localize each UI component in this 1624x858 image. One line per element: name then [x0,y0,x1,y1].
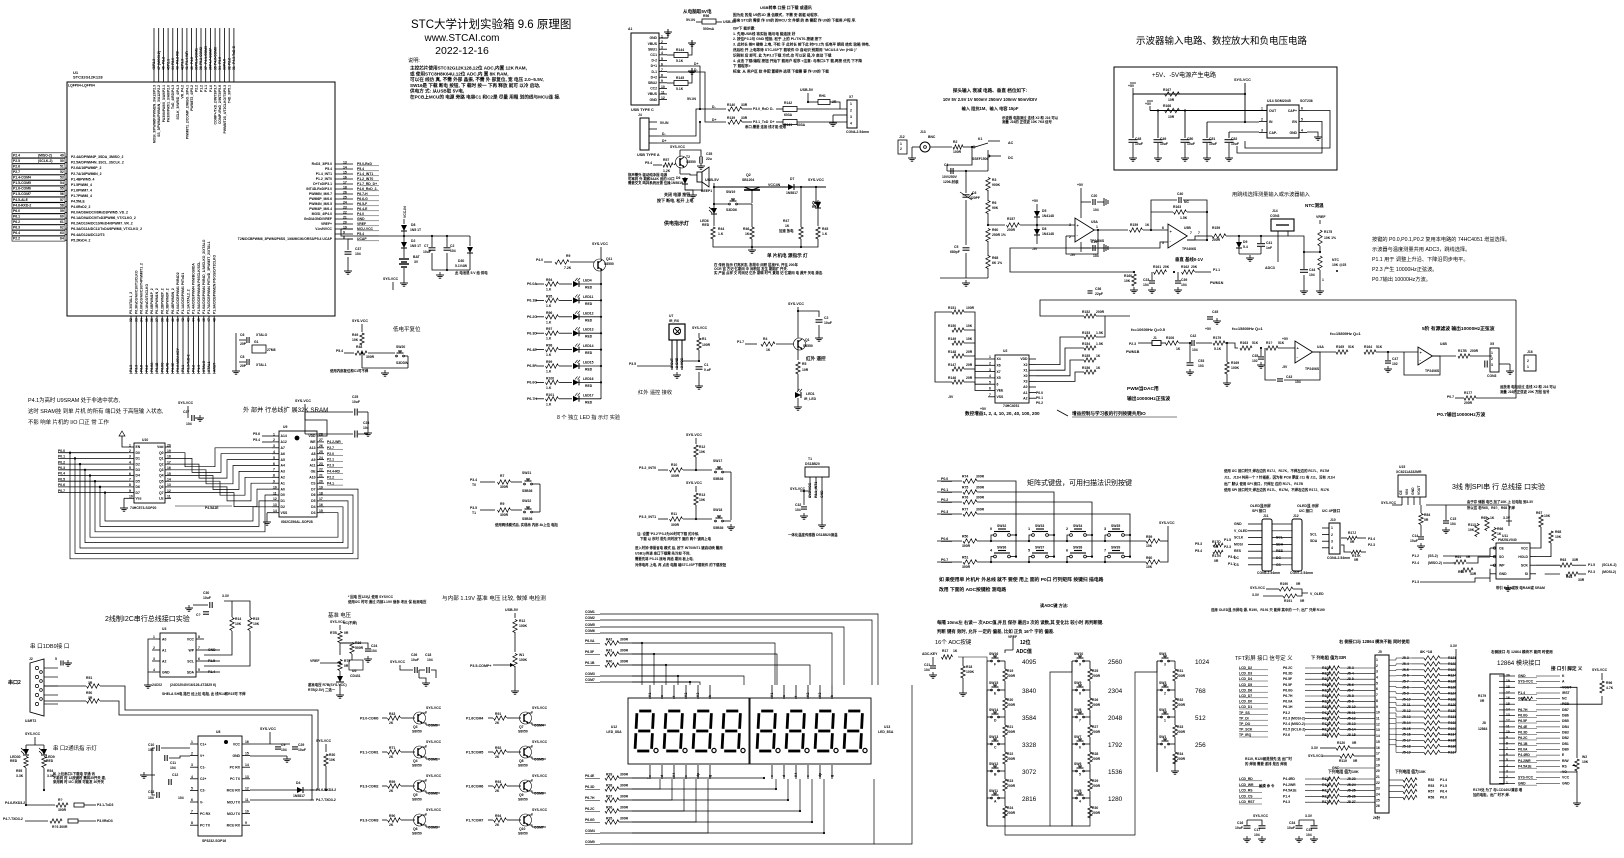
svg-text:3: 3 [1491,363,1493,367]
svg-text:100K: 100K [519,624,528,628]
svg-text:J11、J11H 共用一个 7 针插座，因为有 PCB 厚度: J11、J11H 共用一个 7 针插座，因为有 PCB 厚度 J11 有 J11… [1224,474,1335,479]
svg-text:MCU TX: MCU TX [227,812,241,816]
svg-text:SW36: SW36 [997,546,1006,550]
svg-text:VBUS: VBUS [648,92,658,96]
svg-text:5: 5 [1028,549,1030,553]
svg-text:3: 3 [1261,129,1263,133]
svg-text:P2.2: P2.2 [227,58,231,65]
svg-text:34: 34 [140,318,144,322]
svg-text:13: 13 [1376,728,1380,732]
svg-text:1280: 1280 [1108,796,1123,803]
svg-text:R23: R23 [1007,779,1013,783]
svg-text:104: 104 [186,422,192,426]
svg-text:P4.5A1E: P4.5A1E [205,506,219,510]
svg-text:K3: K3 [696,693,700,697]
svg-text:34: 34 [218,66,222,70]
svg-text:33: 33 [134,318,138,322]
svg-text:GND: GND [357,217,365,221]
svg-text:不影 响单 片机的 I/O 口正 常 工作: 不影 响单 片机的 I/O 口正 常 工作 [28,418,109,426]
svg-text:R98: R98 [546,344,552,348]
svg-text:P4.1-COM3: P4.1-COM3 [204,46,208,64]
svg-text:R150: R150 [948,324,956,328]
svg-text:CE: CE [1499,546,1504,550]
svg-text:R106: R106 [1166,336,1174,340]
svg-text:U2: U2 [1003,349,1007,353]
svg-text:P2.2: P2.2 [162,57,166,64]
svg-text:2K: 2K [389,823,394,827]
svg-text:CD431: CD431 [350,674,361,678]
svg-text:右侧接口 与 12864 模块不 能同 时使用: 右侧接口 与 12864 模块不 能同 时使用 [1490,649,1553,654]
svg-text:SW11: SW11 [989,789,998,793]
svg-text:300R: 300R [976,508,985,512]
svg-text:Q6: Q6 [159,485,164,489]
svg-text:P1.7_RD_D+: P1.7_RD_D+ [357,182,377,186]
svg-text:A5: A5 [281,458,285,462]
svg-text:R9: R9 [566,254,570,258]
svg-text:26: 26 [343,190,347,194]
svg-text:D+1: D+1 [651,64,657,68]
svg-text:R75: R75 [962,486,968,490]
svg-text:R24: R24 [1007,806,1013,810]
svg-text:-5V: -5V [1070,253,1076,257]
svg-text:VDD: VDD [308,434,316,438]
svg-text:D4: D4 [296,781,300,785]
svg-text:运放泄 电阻设过 连线 X2 和 J16 可以: 运放泄 电阻设过 连线 X2 和 J16 可以 [1500,384,1557,389]
svg-text:3线 制SPI串 行 总线接 口实验: 3线 制SPI串 行 总线接 口实验 [1452,482,1545,491]
svg-text:J1: J1 [1153,336,1157,340]
svg-text:3: 3 [1376,670,1378,674]
svg-text:R46: R46 [743,227,749,231]
svg-text:3: 3 [1506,770,1508,774]
svg-text:0R: 0R [1350,540,1355,544]
svg-text:5: 5 [55,657,57,661]
svg-text:1: 1 [900,142,902,146]
svg-text:SYS-VCC: SYS-VCC [1592,668,1608,672]
svg-text:C35: C35 [1252,354,1258,358]
svg-text:P0.1: P0.1 [941,488,948,492]
svg-text:RED: RED [585,318,593,322]
svg-text:P4.3-TxD-B: P4.3-TxD-B [232,45,236,64]
svg-text:T1: T1 [472,511,476,515]
svg-text:P0.5: P0.5 [58,477,65,481]
svg-text:104: 104 [924,668,930,672]
svg-text:UCAP: UCAP [357,237,367,241]
svg-text:D5: D5 [1042,209,1046,213]
svg-text:串 口2通讯指 示灯: 串 口2通讯指 示灯 [53,744,97,752]
svg-text:P6.0: P6.0 [1440,795,1447,799]
svg-text:GND: GND [820,490,824,498]
svg-text:16: 16 [1506,696,1510,700]
svg-text:SDA: SDA [187,670,195,674]
svg-text:P6.0A: P6.0A [1518,748,1528,752]
svg-text:识别到 后 即可, 此 为P3.2下载 方式,也 可以说 是: 识别到 后 即可, 此 为P3.2下载 方式,也 可以说 是,冷 启动 下载 [733,52,832,57]
svg-text:420PF: 420PF [970,196,980,200]
svg-text:52: 52 [60,170,64,174]
svg-text:5: 5 [191,786,193,790]
svg-text:MOSI_3/PWM6P/PWM2N_3/A13/P2.3: MOSI_3/PWM6P/PWM2N_3/A13/P2.3 [152,85,156,143]
svg-text:1N5 1T: 1N5 1T [410,244,422,248]
svg-text:这时 SRAM挂 到单 片机 的所有 端口处 于高阻输 入状: 这时 SRAM挂 到单 片机 的所有 端口处 于高阻输 入状态, [28,407,164,415]
svg-text:C39: C39 [1181,278,1187,282]
svg-text:使用两线模式后, 实现串 内部 4k上位 电阻: 使用两线模式后, 实现串 内部 4k上位 电阻 [494,522,558,527]
svg-text:R39: R39 [606,773,612,777]
svg-text:SYS-VCC: SYS-VCC [1308,754,1324,758]
svg-text:20: 20 [343,220,347,224]
svg-text:PWM8/T2S_4/T2CLKO/T3/P5.3: PWM8/T2S_4/T2CLKO/T3/P5.3 [223,85,227,134]
svg-text:P3.6: P3.6 [218,57,222,64]
svg-text:P6.3D: P6.3D [585,785,595,789]
svg-text:C49: C49 [1160,137,1166,141]
svg-text:Q3: Q3 [413,725,418,729]
svg-text:UART2: UART2 [25,719,36,723]
svg-text:P2.6A/16PWM6P_2: P2.6A/16PWM6P_2 [71,166,101,170]
svg-text:104: 104 [1181,283,1187,287]
svg-text:XTALO: XTALO [256,333,268,337]
svg-text:10uF: 10uF [1187,142,1195,146]
svg-text:P2.1: P2.1 [166,59,170,66]
svg-text:CS: CS [311,481,316,485]
svg-text:COM0: COM0 [428,724,438,728]
svg-text:RED: RED [585,368,593,372]
svg-text:5: 5 [1301,118,1303,122]
svg-text:SYS-VCC: SYS-VCC [808,482,812,498]
svg-text:300R: 300R [671,474,680,478]
svg-text:5: 5 [1079,773,1081,777]
svg-text:A0: A0 [281,487,285,491]
svg-text:SDA: SDA [1276,542,1284,546]
svg-text:P6.5F: P6.5F [527,364,537,368]
svg-text:R120: R120 [1337,741,1345,745]
svg-text:P6.2C: P6.2C [1283,666,1293,670]
svg-text:V_OLED: V_OLED [1310,592,1324,596]
svg-text:K4: K4 [672,773,676,777]
svg-text:14: 14 [167,478,171,482]
svg-text:P4.7-COM7: P4.7-COM7 [209,48,213,66]
svg-text:2K: 2K [495,789,500,793]
svg-text:SYS-VCC: SYS-VCC [426,706,442,710]
svg-text:P1.1A/XTAL2_2: P1.1A/XTAL2_2 [186,289,190,314]
svg-text:R162: R162 [1181,265,1189,269]
svg-text:2: 2 [989,362,991,366]
svg-text:200R: 200R [1470,349,1479,353]
svg-text:SYS-VCC: SYS-VCC [1234,78,1251,82]
svg-text:6: 6 [273,462,275,466]
svg-text:S8050: S8050 [518,832,528,836]
svg-text:T2: T2 [686,155,690,159]
svg-text:1: 1 [1322,278,1324,282]
svg-text:R9: R9 [500,502,504,506]
svg-text:6K 1%: 6K 1% [992,261,1002,265]
svg-text:g: g [708,775,712,777]
svg-text:SW16: SW16 [989,652,998,656]
svg-text:D8: D8 [411,223,415,227]
svg-text:1: 1 [1506,781,1508,785]
svg-text:D-: D- [662,132,666,136]
svg-text:200R: 200R [1464,401,1473,405]
svg-text:PA3/6#PA5/0_3/A9/P2.1: PA3/6#PA5/0_3/A9/P2.1 [162,85,166,122]
svg-text:A1: A1 [162,648,166,652]
svg-text:2304: 2304 [1108,688,1123,695]
svg-text:X0: X0 [1023,374,1027,378]
svg-text:10: 10 [129,495,133,499]
svg-text:然后松 开 上电等待 STC-ISP下 载软件 中 自动识: 然后松 开 上电等待 STC-ISP下 载软件 中 自动识 别期间 "MCU3.… [732,47,858,52]
svg-text:P2.2: P2.2 [13,237,20,241]
svg-text:2816: 2816 [1022,796,1037,803]
svg-text:23: 23 [1376,787,1380,791]
svg-text:U9: U9 [283,425,287,429]
svg-text:10uF: 10uF [1231,142,1239,146]
svg-text:RED: RED [46,759,54,763]
svg-text:P0.2: P0.2 [941,498,948,502]
svg-text:C19: C19 [1091,240,1097,244]
svg-text:R97: R97 [546,327,552,331]
svg-text:1: 1 [850,102,852,106]
svg-text:R57: R57 [1428,790,1434,794]
svg-text:1.K: 1.K [546,353,552,357]
svg-text:SW14: SW14 [989,708,998,712]
svg-text:12: 12 [1376,722,1380,726]
svg-text:D6: D6 [311,493,315,497]
svg-text:D-1: D-1 [652,70,658,74]
svg-text:11: 11 [245,798,249,802]
svg-text:的 焊接 需要 递排 是否 焊接: 的 焊接 需要 递排 是否 焊接 [1245,761,1288,766]
svg-text:/RST: /RST [1562,691,1571,695]
svg-text:3: 3 [850,115,852,119]
svg-text:P5.4: P5.4 [253,438,260,442]
svg-text:V-in/NVCC: V-in/NVCC [315,227,332,231]
svg-text:104: 104 [1309,273,1315,277]
svg-text:VCC-IN: VCC-IN [403,206,407,218]
svg-text:1N5819: 1N5819 [671,181,683,185]
svg-text:Q5: Q5 [413,793,418,797]
svg-text:P3.0_RxD: P3.0_RxD [753,107,769,111]
svg-text:P6.3D: P6.3D [1283,672,1293,676]
svg-text:RES: RES [1234,549,1242,553]
svg-text:R51: R51 [86,676,92,680]
svg-text:R165: R165 [1336,345,1344,349]
svg-text:K4: K4 [794,773,798,777]
svg-text:C1-: C1- [200,766,205,770]
svg-text:300R: 300R [620,649,629,653]
svg-text:P2.4 (MISO-2): P2.4 (MISO-2) [1283,722,1305,726]
svg-text:CAP+: CAP+ [1288,109,1297,113]
svg-text:LED17: LED17 [583,393,594,397]
svg-text:DB6: DB6 [1562,714,1569,718]
svg-text:C51: C51 [1209,137,1215,141]
svg-text:SYS-VCC: SYS-VCC [178,401,194,405]
svg-text:R77: R77 [962,508,968,512]
svg-text:43: 43 [176,66,180,70]
svg-text:示波器输入电路、数控放大和负电压电路: 示波器输入电路、数控放大和负电压电路 [1136,35,1308,47]
svg-text:R64: R64 [1566,575,1572,579]
svg-text:104: 104 [1450,522,1456,526]
svg-text:-5V: -5V [948,395,954,399]
svg-text:RED: RED [585,351,593,355]
svg-text:2: 2 [1331,533,1333,537]
svg-text:SYS-VCC: SYS-VCC [532,808,548,812]
svg-text:55: 55 [60,187,64,191]
svg-text:104: 104 [1295,380,1301,384]
svg-text:2: 2 [1164,692,1166,696]
svg-text:按键的 P0.0,P0.1,P0.2 复用本电路的 74HC: 按键的 P0.0,P0.1,P0.2 复用本电路的 74HC4051 增益选择。 [1372,235,1510,243]
svg-text:P2.2: P2.2 [195,85,199,92]
svg-text:5: 5 [989,380,991,384]
svg-text:4: 4 [1376,676,1378,680]
svg-text:MOSI_4/P4.0: MOSI_4/P4.0 [312,212,332,216]
svg-text:P6.5F: P6.5F [1518,719,1527,723]
svg-text:1K: 1K [1096,354,1101,358]
svg-text:2K: 2K [495,755,500,759]
svg-text:R94: R94 [495,814,501,818]
svg-text:P6.0BPWM1P_2: P6.0BPWM1P_2 [150,288,154,314]
svg-text:59: 59 [60,209,64,213]
svg-text:26: 26 [1376,804,1380,808]
svg-text:SW22: SW22 [522,499,531,503]
svg-text:S8050: S8050 [518,798,528,802]
svg-text:SYS-VCC: SYS-VCC [390,660,406,664]
svg-text:P6.2: P6.2 [145,365,149,372]
svg-text:C2: C2 [824,316,828,320]
svg-text:D+: D+ [694,62,698,66]
svg-text:A2: A2 [281,476,285,480]
svg-text:P4.0: P4.0 [536,258,543,262]
svg-text:P4.5A1E: P4.5A1E [1283,789,1297,793]
svg-text:C10: C10 [148,743,154,747]
svg-text:Q0: Q0 [159,451,164,455]
svg-text:63: 63 [60,231,64,235]
svg-text:A1: A1 [281,481,285,485]
svg-text:200R: 200R [1007,674,1016,678]
svg-text:VSS: VSS [997,395,1005,399]
svg-text:P1.3: P1.3 [197,365,201,372]
svg-text:Q1: Q1 [159,457,164,461]
svg-text:1N4148: 1N4148 [1042,214,1054,218]
svg-text:1K: 1K [1490,516,1495,520]
svg-text:100K: 100K [1231,366,1240,370]
svg-text:10uF: 10uF [1135,142,1143,146]
svg-text:LED15: LED15 [583,361,594,365]
svg-text:C32: C32 [795,503,801,507]
svg-text:7: 7 [273,468,275,472]
svg-text:7: 7 [661,68,663,72]
svg-text:C9: C9 [281,743,285,747]
svg-text:VR_P4.2: VR_P4.2 [181,85,185,99]
svg-text:P6.2C: P6.2C [1518,736,1528,740]
svg-text:C36: C36 [1095,287,1101,291]
svg-text:10R: 10R [802,368,809,372]
svg-text:P1.5COM5: P1.5COM5 [466,750,483,754]
svg-text:19: 19 [319,485,323,489]
svg-text:S8050: S8050 [412,832,422,836]
svg-text:R119, R120都是预先 选 出厂时: R119, R120都是预先 选 出厂时 [1245,756,1293,761]
svg-text:P5.4: P5.4 [357,167,364,171]
svg-text:SW6: SW6 [1074,762,1081,766]
svg-text:X7: X7 [849,95,853,99]
svg-text:a: a [782,695,786,697]
svg-text:36: 36 [150,318,154,322]
svg-text:P4.4-RD: P4.4-RD [327,470,341,474]
svg-text:出厂 默认 使用 SPI 接口，只焊左 边的 R17L、R1: 出厂 默认 使用 SPI 接口，只焊左 边的 R17L、R17B [1224,481,1303,486]
svg-text:P0.7输出 10000Hz方波。: P0.7输出 10000Hz方波。 [1372,275,1431,283]
svg-text:K1: K1 [770,693,774,697]
svg-text:实 产品 点样 文 时间记 忆外 期转 时气 景观 记 忆期: 实 产品 点样 文 时间记 忆外 期转 时气 景观 记 忆期间 电 源开 关电 … [714,270,823,275]
svg-text:TxD_4/RD/P4.3: TxD_4/RD/P4.3 [171,85,175,109]
svg-text:10V 5V 2.5V 1V 500mV 250mV 100: 10V 5V 2.5V 1V 500mV 250mV 100mV 50mV/DI… [943,97,1037,102]
svg-text:7: 7 [1198,231,1200,235]
svg-text:CC2: CC2 [650,87,657,91]
svg-text:P3.2: P3.2 [192,365,196,372]
svg-text:P3.5: P3.5 [629,362,636,366]
svg-text:RED: RED [585,302,593,306]
svg-text:5.1K: 5.1K [676,59,684,63]
svg-text:P3.4: P3.4 [1368,537,1375,541]
svg-text:41: 41 [176,318,180,322]
svg-text:SYS-VCC: SYS-VCC [295,399,311,403]
svg-text:D0: D0 [281,493,285,497]
svg-text:1K: 1K [1176,347,1181,351]
svg-text:3: 3 [1164,663,1166,667]
svg-text:200R: 200R [1177,730,1186,734]
svg-text:4: 4 [1506,764,1508,768]
svg-text:A4: A4 [281,464,285,468]
svg-text:62: 62 [60,226,64,230]
svg-text:D8: D8 [1042,227,1046,231]
svg-text:LCD_D4: LCD_D4 [1239,677,1252,681]
svg-text:R48: R48 [356,345,362,349]
svg-text:P6.4A/D12A/DC12/T3: P6.4A/D12A/DC12/T3 [71,233,105,237]
svg-text:10K: 10K [1146,544,1153,548]
svg-text:OE: OE [311,470,317,474]
svg-text:X5: X5 [1490,342,1494,346]
svg-text:61: 61 [60,220,64,224]
svg-text:下 列电阻 值为33R: 下 列电阻 值为33R [1311,654,1346,661]
svg-text:C20: C20 [1091,194,1097,198]
svg-text:2线制I2C串行总线接口实验: 2线制I2C串行总线接口实验 [105,614,190,623]
svg-text:LED1: LED1 [806,392,815,396]
svg-text:K2: K2 [806,693,810,697]
svg-text:S8050: S8050 [412,798,422,802]
svg-text:下列电阻 值为10K: 下列电阻 值为10K [1395,769,1426,774]
svg-text:X2: X2 [1023,363,1027,367]
svg-text:探头输入 衰减 电路、垂直 档位如下:: 探头输入 衰减 电路、垂直 档位如下: [953,87,1028,94]
svg-text:R17D: R17D [1212,540,1221,544]
svg-text:X5: X5 [997,376,1001,380]
svg-text:R7B: R7B [330,631,337,635]
svg-text:TP2406S: TP2406S [1182,247,1197,251]
svg-text:31: 31 [232,66,236,70]
svg-text:P2.5A/DPWM4N_3SCL_3SCLK_2: P2.5A/DPWM4N_3SCL_3SCLK_2 [71,161,124,165]
svg-text:5: 5 [129,466,131,470]
svg-text:P6.4: P6.4 [13,231,20,235]
svg-text:J5: J5 [1378,650,1382,654]
svg-text:P6.6A: P6.6A [150,362,154,372]
svg-text:104: 104 [148,748,154,752]
svg-text:S8050: S8050 [412,764,422,768]
svg-text:1206-封装: 1206-封装 [943,179,959,184]
svg-text:R95: R95 [546,294,552,298]
svg-text:SYS-VCC: SYS-VCC [25,732,41,736]
svg-text:51: 51 [60,165,64,169]
svg-text:TP_DO: TP_DO [1239,722,1251,726]
svg-text:1. 先用USB线 将实验 箱与电 脑连接 好: 1. 先用USB线 将实验 箱与电 脑连接 好 [733,31,796,36]
svg-text:R156: R156 [1082,366,1090,370]
svg-text:TFT彩屏 接口 信号定 义: TFT彩屏 接口 信号定 义 [1235,654,1293,662]
svg-text:300R: 300R [58,808,67,812]
svg-text:R7B(2.5V) 二选一: R7B(2.5V) 二选一 [308,687,336,692]
svg-text:外 部并 行总线扩 展32K SRAM: 外 部并 行总线扩 展32K SRAM [243,406,328,414]
svg-text:104: 104 [148,796,154,800]
svg-text:200R: 200R [1092,811,1101,815]
